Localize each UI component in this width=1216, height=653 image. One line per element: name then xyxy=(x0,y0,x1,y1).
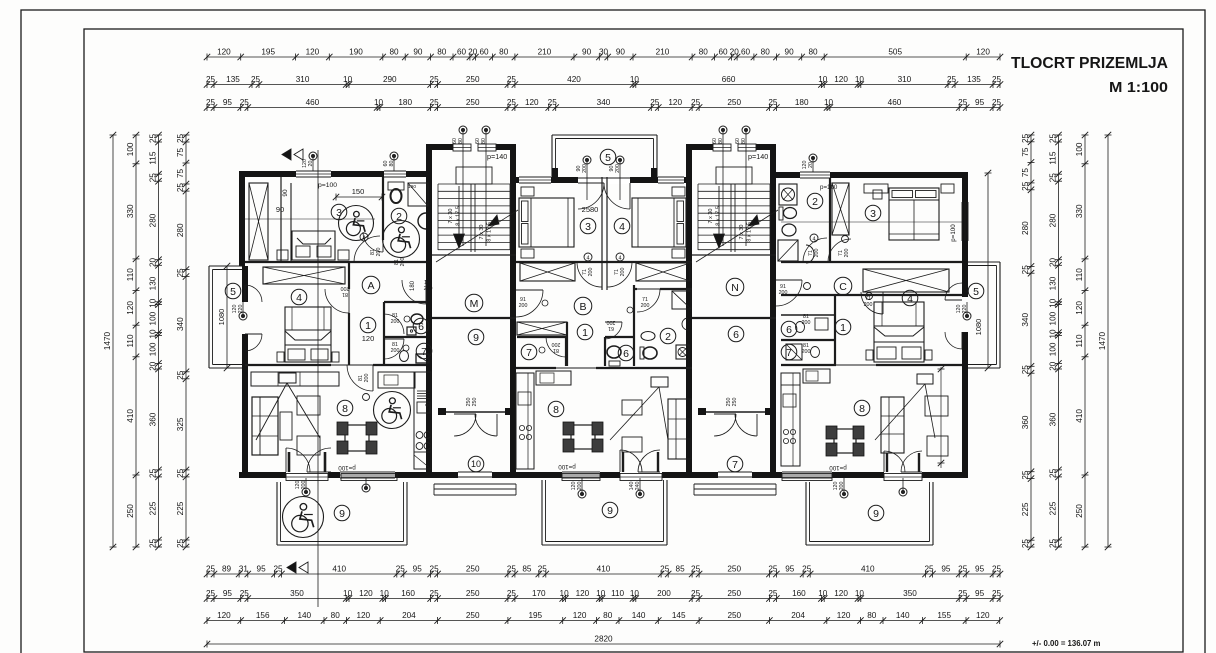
svg-text:200: 200 xyxy=(391,348,400,354)
svg-text:8 x 17.5: 8 x 17.5 xyxy=(487,222,493,242)
svg-text:25: 25 xyxy=(430,98,440,107)
svg-text:120: 120 xyxy=(837,611,851,620)
svg-text:340: 340 xyxy=(1021,313,1030,327)
svg-text:90: 90 xyxy=(582,47,592,56)
svg-text:95: 95 xyxy=(975,564,985,573)
svg-text:p=100: p=100 xyxy=(318,182,337,189)
svg-text:80: 80 xyxy=(389,47,399,56)
svg-text:90: 90 xyxy=(785,47,795,56)
svg-text:25: 25 xyxy=(1021,265,1030,275)
svg-text:200: 200 xyxy=(864,302,873,308)
svg-text:250: 250 xyxy=(1075,504,1084,518)
svg-text:100: 100 xyxy=(126,142,135,156)
svg-text:120: 120 xyxy=(1075,301,1084,315)
svg-text:145: 145 xyxy=(672,611,686,620)
svg-text:660: 660 xyxy=(722,75,736,84)
svg-text:25: 25 xyxy=(958,98,968,107)
svg-text:80: 80 xyxy=(331,611,341,620)
svg-text:200: 200 xyxy=(802,320,811,326)
svg-text:25: 25 xyxy=(768,564,778,573)
svg-text:1080: 1080 xyxy=(974,319,983,336)
svg-text:8 x 17.5: 8 x 17.5 xyxy=(747,222,753,242)
svg-text:120: 120 xyxy=(359,589,373,598)
svg-text:250: 250 xyxy=(466,75,480,84)
svg-text:250: 250 xyxy=(727,98,741,107)
svg-text:25: 25 xyxy=(958,589,968,598)
svg-text:25: 25 xyxy=(149,173,158,183)
svg-text:200: 200 xyxy=(620,268,626,277)
svg-text:25: 25 xyxy=(206,564,216,573)
svg-text:2580: 2580 xyxy=(582,205,599,214)
svg-text:1: 1 xyxy=(840,322,846,334)
svg-text:25: 25 xyxy=(507,75,517,84)
svg-text:360: 360 xyxy=(1021,415,1030,429)
svg-text:75: 75 xyxy=(176,169,185,179)
svg-text:120: 120 xyxy=(976,611,990,620)
svg-text:60: 60 xyxy=(479,47,489,56)
svg-text:20: 20 xyxy=(730,47,740,56)
svg-text:9: 9 xyxy=(607,505,613,517)
svg-text:10: 10 xyxy=(596,589,606,598)
svg-text:31: 31 xyxy=(239,564,249,573)
svg-text:25: 25 xyxy=(1049,539,1058,549)
svg-text:25: 25 xyxy=(1049,173,1058,183)
svg-text:240: 240 xyxy=(635,482,641,491)
svg-text:1470: 1470 xyxy=(103,331,112,350)
svg-text:115: 115 xyxy=(149,151,158,164)
svg-text:100: 100 xyxy=(1049,342,1058,356)
svg-text:A: A xyxy=(367,280,374,292)
svg-text:250: 250 xyxy=(466,564,480,573)
svg-text:20: 20 xyxy=(149,361,158,371)
svg-text:25: 25 xyxy=(176,268,185,278)
svg-text:6: 6 xyxy=(786,324,792,336)
svg-text:200: 200 xyxy=(802,349,811,355)
svg-text:190: 190 xyxy=(349,47,363,56)
svg-text:204: 204 xyxy=(791,611,805,620)
svg-text:160: 160 xyxy=(792,589,806,598)
svg-text:10: 10 xyxy=(630,75,640,84)
svg-text:20: 20 xyxy=(1049,258,1058,268)
svg-text:8 x 17.5: 8 x 17.5 xyxy=(456,206,462,226)
svg-text:10: 10 xyxy=(374,98,384,107)
svg-text:220: 220 xyxy=(962,305,968,314)
svg-text:200: 200 xyxy=(341,285,350,291)
svg-text:340: 340 xyxy=(597,98,611,107)
svg-text:25: 25 xyxy=(1021,365,1030,375)
svg-text:TLOCRT PRIZEMLJA: TLOCRT PRIZEMLJA xyxy=(1011,55,1168,72)
svg-text:250: 250 xyxy=(732,398,738,407)
svg-text:350: 350 xyxy=(903,589,917,598)
svg-text:195: 195 xyxy=(261,47,275,56)
svg-text:10: 10 xyxy=(818,75,828,84)
svg-text:3: 3 xyxy=(585,221,591,233)
svg-text:M 1:100: M 1:100 xyxy=(1109,79,1168,96)
svg-text:200: 200 xyxy=(582,164,588,173)
svg-text:6: 6 xyxy=(623,348,629,360)
svg-text:100: 100 xyxy=(1075,142,1084,156)
svg-text:60: 60 xyxy=(718,47,728,56)
svg-text:200: 200 xyxy=(400,258,406,267)
svg-text:95: 95 xyxy=(975,98,985,107)
svg-text:204: 204 xyxy=(402,611,416,620)
svg-text:8: 8 xyxy=(859,403,865,415)
svg-text:200: 200 xyxy=(839,482,845,491)
svg-text:95: 95 xyxy=(975,589,985,598)
svg-text:25: 25 xyxy=(992,98,1002,107)
svg-text:1470: 1470 xyxy=(1098,331,1107,350)
svg-text:7 x 30: 7 x 30 xyxy=(479,225,485,240)
svg-text:7 x 30: 7 x 30 xyxy=(448,209,454,224)
svg-text:25: 25 xyxy=(802,564,812,573)
svg-text:25: 25 xyxy=(176,539,185,549)
svg-text:110: 110 xyxy=(1075,334,1084,347)
svg-text:25: 25 xyxy=(507,589,517,598)
svg-text:90: 90 xyxy=(616,47,626,56)
svg-text:7: 7 xyxy=(421,346,427,358)
svg-text:460: 460 xyxy=(888,98,902,107)
svg-text:110: 110 xyxy=(611,589,624,598)
svg-text:9: 9 xyxy=(873,508,879,520)
svg-text:10: 10 xyxy=(471,459,481,469)
svg-text:90: 90 xyxy=(276,205,284,214)
svg-text:90: 90 xyxy=(282,189,289,197)
svg-text:p=100: p=100 xyxy=(820,184,838,191)
svg-text:25: 25 xyxy=(430,75,440,84)
svg-text:25: 25 xyxy=(149,468,158,478)
svg-text:4: 4 xyxy=(812,237,815,243)
svg-text:6: 6 xyxy=(733,329,739,341)
svg-text:10: 10 xyxy=(343,589,353,598)
svg-text:4: 4 xyxy=(586,256,589,262)
svg-text:140: 140 xyxy=(297,611,311,620)
svg-text:25: 25 xyxy=(176,134,185,144)
svg-text:200: 200 xyxy=(657,589,671,598)
svg-text:80: 80 xyxy=(718,138,724,144)
svg-text:25: 25 xyxy=(768,98,778,107)
svg-text:25: 25 xyxy=(1021,181,1030,191)
svg-text:90: 90 xyxy=(413,47,423,56)
svg-text:80: 80 xyxy=(437,47,447,56)
svg-text:200: 200 xyxy=(552,341,561,347)
svg-text:200: 200 xyxy=(424,286,433,292)
svg-text:5: 5 xyxy=(605,152,611,164)
svg-text:25: 25 xyxy=(176,468,185,478)
svg-text:505: 505 xyxy=(888,47,902,56)
svg-text:25: 25 xyxy=(992,75,1002,84)
svg-text:250: 250 xyxy=(472,398,478,407)
svg-text:10: 10 xyxy=(343,75,353,84)
svg-text:25: 25 xyxy=(1021,133,1030,143)
svg-text:280: 280 xyxy=(149,213,158,227)
svg-text:25: 25 xyxy=(430,564,440,573)
svg-text:80: 80 xyxy=(389,161,395,167)
svg-text:95: 95 xyxy=(223,589,233,598)
svg-text:8 x 17.5: 8 x 17.5 xyxy=(716,206,722,226)
svg-text:25: 25 xyxy=(396,564,406,573)
svg-text:20: 20 xyxy=(1049,361,1058,371)
svg-text:250: 250 xyxy=(727,564,741,573)
svg-text:410: 410 xyxy=(597,564,611,573)
svg-text:7: 7 xyxy=(732,459,738,471)
svg-text:200: 200 xyxy=(376,248,382,257)
svg-text:110: 110 xyxy=(1075,268,1084,281)
svg-text:140: 140 xyxy=(896,611,910,620)
svg-text:160: 160 xyxy=(401,589,415,598)
svg-text:25: 25 xyxy=(1021,539,1030,549)
svg-text:150: 150 xyxy=(352,187,365,196)
svg-text:95: 95 xyxy=(413,564,423,573)
svg-text:120: 120 xyxy=(356,611,370,620)
svg-text:N: N xyxy=(731,282,739,294)
svg-text:25: 25 xyxy=(206,75,216,84)
svg-text:100: 100 xyxy=(149,342,158,356)
svg-text:200: 200 xyxy=(577,482,583,491)
svg-text:135: 135 xyxy=(967,75,981,84)
svg-text:220: 220 xyxy=(238,305,244,314)
svg-text:120: 120 xyxy=(834,589,848,598)
svg-text:200: 200 xyxy=(814,249,820,258)
svg-text:420: 420 xyxy=(567,75,581,84)
svg-text:1: 1 xyxy=(582,327,588,339)
svg-text:75: 75 xyxy=(1021,168,1030,178)
svg-text:1080: 1080 xyxy=(217,309,226,326)
svg-text:20: 20 xyxy=(149,258,158,268)
svg-text:25: 25 xyxy=(1049,134,1058,144)
svg-text:80: 80 xyxy=(741,138,747,144)
svg-text:120: 120 xyxy=(573,611,587,620)
svg-text:10: 10 xyxy=(630,589,640,598)
svg-text:10: 10 xyxy=(149,298,158,308)
svg-text:7 x 30: 7 x 30 xyxy=(708,209,714,224)
svg-text:80: 80 xyxy=(458,138,464,144)
svg-text:80: 80 xyxy=(603,611,613,620)
svg-text:180: 180 xyxy=(398,98,412,107)
svg-text:80: 80 xyxy=(808,47,818,56)
svg-text:250: 250 xyxy=(466,589,480,598)
svg-text:p=140: p=140 xyxy=(748,152,768,161)
svg-text:10: 10 xyxy=(855,75,865,84)
svg-text:460: 460 xyxy=(306,98,320,107)
svg-text:155: 155 xyxy=(937,611,951,620)
svg-text:25: 25 xyxy=(768,589,778,598)
svg-text:10: 10 xyxy=(818,589,828,598)
svg-text:p=100: p=100 xyxy=(950,224,957,242)
svg-text:195: 195 xyxy=(528,611,542,620)
svg-text:7: 7 xyxy=(526,347,532,359)
svg-text:25: 25 xyxy=(273,564,283,573)
svg-text:200: 200 xyxy=(391,319,400,325)
svg-text:225: 225 xyxy=(1049,501,1058,515)
svg-text:30: 30 xyxy=(599,47,609,56)
svg-text:200: 200 xyxy=(615,164,621,173)
svg-text:M: M xyxy=(470,298,479,310)
svg-text:180: 180 xyxy=(410,280,416,291)
svg-text:5: 5 xyxy=(973,286,979,298)
svg-text:290: 290 xyxy=(383,75,397,84)
svg-text:170: 170 xyxy=(532,589,546,598)
svg-text:280: 280 xyxy=(176,223,185,237)
svg-text:210: 210 xyxy=(538,47,552,56)
svg-text:7 x 30: 7 x 30 xyxy=(739,225,745,240)
svg-text:20: 20 xyxy=(308,161,314,167)
svg-text:2: 2 xyxy=(665,331,671,343)
svg-text:200: 200 xyxy=(588,268,594,277)
svg-text:4: 4 xyxy=(907,293,913,305)
svg-text:410: 410 xyxy=(332,564,346,573)
svg-text:25: 25 xyxy=(992,564,1002,573)
svg-text:25: 25 xyxy=(176,183,185,193)
svg-text:120: 120 xyxy=(576,589,590,598)
svg-text:95: 95 xyxy=(785,564,795,573)
svg-text:25: 25 xyxy=(947,75,957,84)
svg-text:p=100: p=100 xyxy=(338,464,356,471)
svg-text:25: 25 xyxy=(430,589,440,598)
svg-text:410: 410 xyxy=(1075,409,1084,423)
svg-text:25: 25 xyxy=(240,589,250,598)
svg-text:25: 25 xyxy=(538,564,548,573)
svg-text:280: 280 xyxy=(1049,213,1058,227)
svg-text:250: 250 xyxy=(727,611,741,620)
svg-text:130: 130 xyxy=(1049,276,1058,290)
svg-text:25: 25 xyxy=(1049,468,1058,478)
svg-text:120: 120 xyxy=(668,98,682,107)
svg-text:340: 340 xyxy=(176,317,185,331)
svg-text:95: 95 xyxy=(257,564,267,573)
svg-text:25: 25 xyxy=(691,98,701,107)
svg-text:10: 10 xyxy=(149,329,158,339)
svg-text:75: 75 xyxy=(176,148,185,158)
svg-text:4: 4 xyxy=(618,256,621,262)
svg-text:20: 20 xyxy=(808,162,814,168)
svg-text:120: 120 xyxy=(306,47,320,56)
svg-text:25: 25 xyxy=(251,75,261,84)
svg-text:80: 80 xyxy=(761,47,771,56)
svg-text:225: 225 xyxy=(149,501,158,515)
svg-text:120: 120 xyxy=(976,47,990,56)
svg-text:25: 25 xyxy=(691,589,701,598)
svg-text:25: 25 xyxy=(206,589,216,598)
svg-text:190: 190 xyxy=(408,184,416,190)
svg-text:25: 25 xyxy=(206,98,216,107)
svg-text:80: 80 xyxy=(699,47,709,56)
svg-text:200: 200 xyxy=(364,374,370,383)
svg-text:80: 80 xyxy=(499,47,509,56)
svg-text:310: 310 xyxy=(296,75,310,84)
svg-text:410: 410 xyxy=(861,564,875,573)
svg-text:60: 60 xyxy=(457,47,467,56)
svg-text:3: 3 xyxy=(870,208,876,220)
svg-text:7: 7 xyxy=(786,347,792,359)
svg-text:75: 75 xyxy=(1021,147,1030,157)
svg-text:200: 200 xyxy=(519,303,528,309)
svg-text:110: 110 xyxy=(126,268,135,281)
svg-text:225: 225 xyxy=(1021,502,1030,516)
svg-text:1: 1 xyxy=(365,320,371,332)
svg-text:10: 10 xyxy=(1049,329,1058,339)
svg-text:C: C xyxy=(839,281,847,293)
svg-text:115: 115 xyxy=(1049,151,1058,164)
svg-text:25: 25 xyxy=(1021,470,1030,480)
svg-text:156: 156 xyxy=(256,611,270,620)
svg-text:60: 60 xyxy=(741,47,751,56)
svg-text:4: 4 xyxy=(296,292,302,304)
svg-text:2: 2 xyxy=(812,196,818,208)
svg-text:250: 250 xyxy=(466,611,480,620)
svg-text:330: 330 xyxy=(1075,204,1084,218)
svg-text:210: 210 xyxy=(656,47,670,56)
svg-text:100: 100 xyxy=(149,311,158,325)
svg-text:+/- 0.00 = 136.07 m: +/- 0.00 = 136.07 m xyxy=(1032,639,1101,648)
svg-text:350: 350 xyxy=(290,589,304,598)
svg-text:120: 120 xyxy=(126,301,135,315)
svg-text:8: 8 xyxy=(553,404,559,416)
svg-text:360: 360 xyxy=(1049,412,1058,426)
svg-text:250: 250 xyxy=(727,589,741,598)
svg-text:360: 360 xyxy=(149,412,158,426)
svg-text:120: 120 xyxy=(834,75,848,84)
svg-text:25: 25 xyxy=(176,370,185,380)
svg-text:225: 225 xyxy=(176,501,185,515)
svg-text:25: 25 xyxy=(240,98,250,107)
svg-text:85: 85 xyxy=(676,564,686,573)
svg-text:25: 25 xyxy=(650,98,660,107)
svg-text:89: 89 xyxy=(222,564,232,573)
svg-text:200: 200 xyxy=(779,290,788,296)
svg-text:10: 10 xyxy=(855,589,865,598)
svg-text:9: 9 xyxy=(339,508,345,520)
svg-text:10: 10 xyxy=(824,98,834,107)
svg-text:p=100: p=100 xyxy=(829,464,847,471)
svg-text:25: 25 xyxy=(149,539,158,549)
svg-text:95: 95 xyxy=(223,98,233,107)
svg-text:85: 85 xyxy=(522,564,532,573)
svg-text:200: 200 xyxy=(844,249,850,258)
svg-text:10: 10 xyxy=(560,589,570,598)
svg-text:200: 200 xyxy=(641,303,650,309)
svg-text:280: 280 xyxy=(1021,221,1030,235)
svg-text:180: 180 xyxy=(795,98,809,107)
svg-text:200: 200 xyxy=(301,481,307,490)
svg-text:110: 110 xyxy=(126,334,135,347)
svg-text:25: 25 xyxy=(691,564,701,573)
svg-text:8: 8 xyxy=(342,403,348,415)
svg-text:10: 10 xyxy=(1049,298,1058,308)
svg-text:10: 10 xyxy=(380,589,390,598)
svg-text:310: 310 xyxy=(898,75,912,84)
svg-text:9: 9 xyxy=(473,332,479,344)
svg-text:100: 100 xyxy=(1049,311,1058,325)
svg-text:250: 250 xyxy=(126,504,135,518)
svg-text:120: 120 xyxy=(362,334,375,343)
svg-text:p=140: p=140 xyxy=(487,152,507,161)
svg-text:80: 80 xyxy=(481,138,487,144)
svg-text:120: 120 xyxy=(217,47,231,56)
svg-text:120: 120 xyxy=(525,98,539,107)
svg-text:5: 5 xyxy=(230,286,236,298)
svg-text:2820: 2820 xyxy=(594,634,613,643)
svg-text:25: 25 xyxy=(992,589,1002,598)
svg-text:25: 25 xyxy=(548,98,558,107)
svg-text:250: 250 xyxy=(466,98,480,107)
svg-text:130: 130 xyxy=(149,276,158,290)
svg-text:25: 25 xyxy=(958,564,968,573)
svg-text:25: 25 xyxy=(924,564,934,573)
svg-text:140: 140 xyxy=(632,611,646,620)
svg-text:410: 410 xyxy=(126,409,135,423)
svg-text:20: 20 xyxy=(468,47,478,56)
svg-text:330: 330 xyxy=(126,204,135,218)
